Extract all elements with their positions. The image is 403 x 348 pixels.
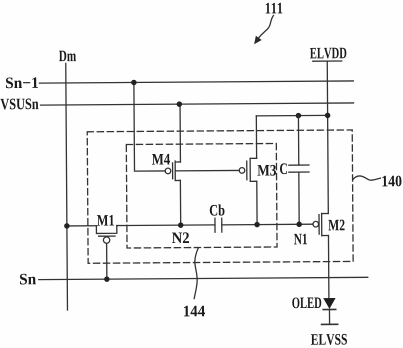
label M2: [328, 220, 344, 231]
diode OLED: [323, 298, 336, 324]
label C: [280, 163, 287, 174]
junction capacitor C top / branch: [296, 113, 302, 119]
power ELVSS label: [311, 334, 347, 345]
wire Sn-1 scan rail: [39, 81, 353, 83]
junction M3 source / node row: [254, 222, 260, 228]
label 144: [184, 306, 205, 317]
label M3: [257, 165, 276, 176]
label OLED: [292, 297, 321, 308]
junction M1 gate / Sn: [104, 276, 110, 282]
net label Dm: [59, 51, 76, 62]
net label Sn-1: [6, 77, 38, 88]
junction node N2: [178, 222, 184, 228]
dashed box 140: [87, 130, 353, 263]
power ELVSS terminal bar: [322, 323, 338, 325]
wire Dm data rail: [66, 63, 68, 309]
wire VSUSn to M4 drain: [179, 104, 181, 162]
junction Sn-1 / M4 gate: [131, 80, 137, 86]
label M1: [97, 215, 114, 226]
leader squiggle for 144: [194, 248, 199, 298]
capacitor C: [289, 116, 310, 225]
transistor M4 (PMOS): [165, 161, 180, 181]
wire Cb to M2 gate: [222, 223, 313, 226]
transistor M2 (PMOS): [313, 214, 329, 236]
junction ELVDD rail / branch: [325, 113, 331, 119]
label M4: [152, 154, 170, 165]
node label N1: [294, 234, 307, 245]
wire ELVDD rail: [327, 61, 328, 213]
junction Dm / M1: [64, 223, 70, 229]
wire M3 drain up to ELVDD branch: [255, 116, 257, 158]
wire M4 source to node N2: [179, 180, 181, 225]
label 140: [382, 176, 401, 187]
leader arrow for 111: [258, 15, 273, 38]
label 111: [266, 3, 283, 14]
capacitor Cb: [215, 218, 222, 232]
transistor M1 (PMOS): [96, 226, 117, 244]
wire node row N2-N1: [67, 225, 96, 227]
node label N2: [172, 232, 189, 243]
dashed box 144: [126, 143, 277, 248]
transistor M3 (PMOS): [239, 158, 257, 181]
net label Sn: [20, 274, 36, 285]
label Cb: [210, 204, 225, 215]
net label VSUSn: [0, 98, 38, 109]
wire VSUSn rail: [41, 103, 354, 105]
wire Sn scan rail: [39, 277, 368, 279]
power ELVDD terminal bar: [313, 60, 342, 62]
wire M1 to Cb: [117, 224, 215, 227]
junction VSUSn / M4: [177, 101, 183, 107]
junction node N1: [296, 222, 302, 228]
wire M2 drain to OLED: [327, 236, 329, 299]
wire Sn-1 to M4 gate: [134, 82, 165, 171]
wire M3 source down to node N1: [256, 181, 258, 224]
power ELVDD label: [310, 48, 346, 59]
wire M1 gate to Sn: [106, 243, 108, 279]
wire M4 gate to M3 gate: [175, 169, 239, 171]
wire ELVDD branch horizontal: [256, 114, 327, 116]
leader squiggle for 140: [353, 176, 380, 181]
